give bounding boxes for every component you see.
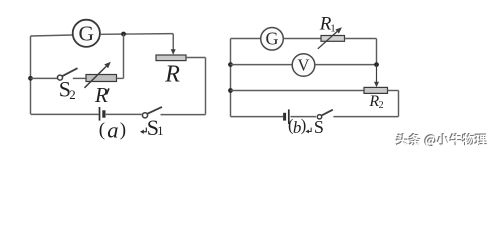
svg-text:): ) <box>301 116 307 135</box>
svg-text:(: ( <box>99 119 105 140</box>
svg-text:1: 1 <box>330 23 336 35</box>
svg-text:1: 1 <box>157 124 163 138</box>
svg-text:): ) <box>120 119 126 140</box>
svg-text:S: S <box>314 117 324 137</box>
svg-text:2: 2 <box>379 100 384 111</box>
svg-text:G: G <box>266 29 279 49</box>
svg-text:R: R <box>94 83 108 107</box>
svg-text:R: R <box>164 62 180 88</box>
svg-text:a: a <box>107 118 118 143</box>
svg-text:V: V <box>298 55 310 74</box>
svg-text:2: 2 <box>69 87 76 102</box>
svg-text:G: G <box>79 22 95 46</box>
